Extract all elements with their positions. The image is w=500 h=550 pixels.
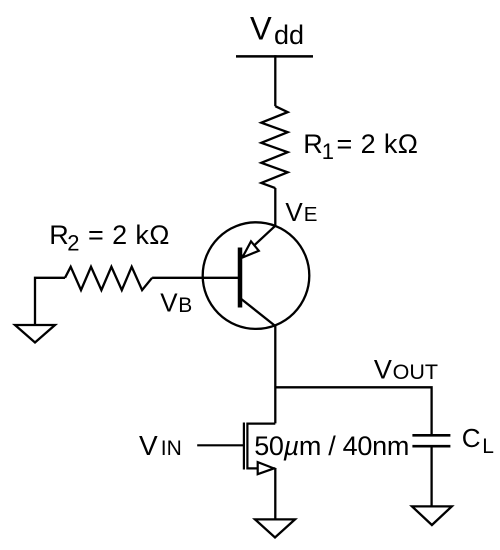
- svg-text:L: L: [482, 435, 494, 458]
- svg-text:E: E: [304, 203, 318, 226]
- svg-text:V: V: [250, 11, 272, 47]
- svg-text:B: B: [178, 294, 192, 317]
- svg-text:= 2 kΩ: = 2 kΩ: [88, 220, 170, 250]
- svg-text:IN: IN: [161, 437, 182, 460]
- svg-text:OUT: OUT: [393, 360, 438, 384]
- svg-text:V: V: [285, 197, 303, 227]
- svg-text:1: 1: [322, 139, 334, 164]
- svg-text:V: V: [139, 430, 158, 461]
- svg-text:C: C: [462, 423, 481, 453]
- svg-text:= 2 kΩ: = 2 kΩ: [337, 129, 419, 159]
- svg-text:2: 2: [67, 231, 79, 256]
- svg-text:dd: dd: [274, 20, 304, 50]
- svg-text:R: R: [303, 129, 323, 159]
- svg-text:R: R: [49, 220, 68, 250]
- svg-text:V: V: [160, 288, 178, 318]
- svg-text:V: V: [374, 355, 392, 385]
- svg-text:50µm / 40nm: 50µm / 40nm: [254, 431, 409, 461]
